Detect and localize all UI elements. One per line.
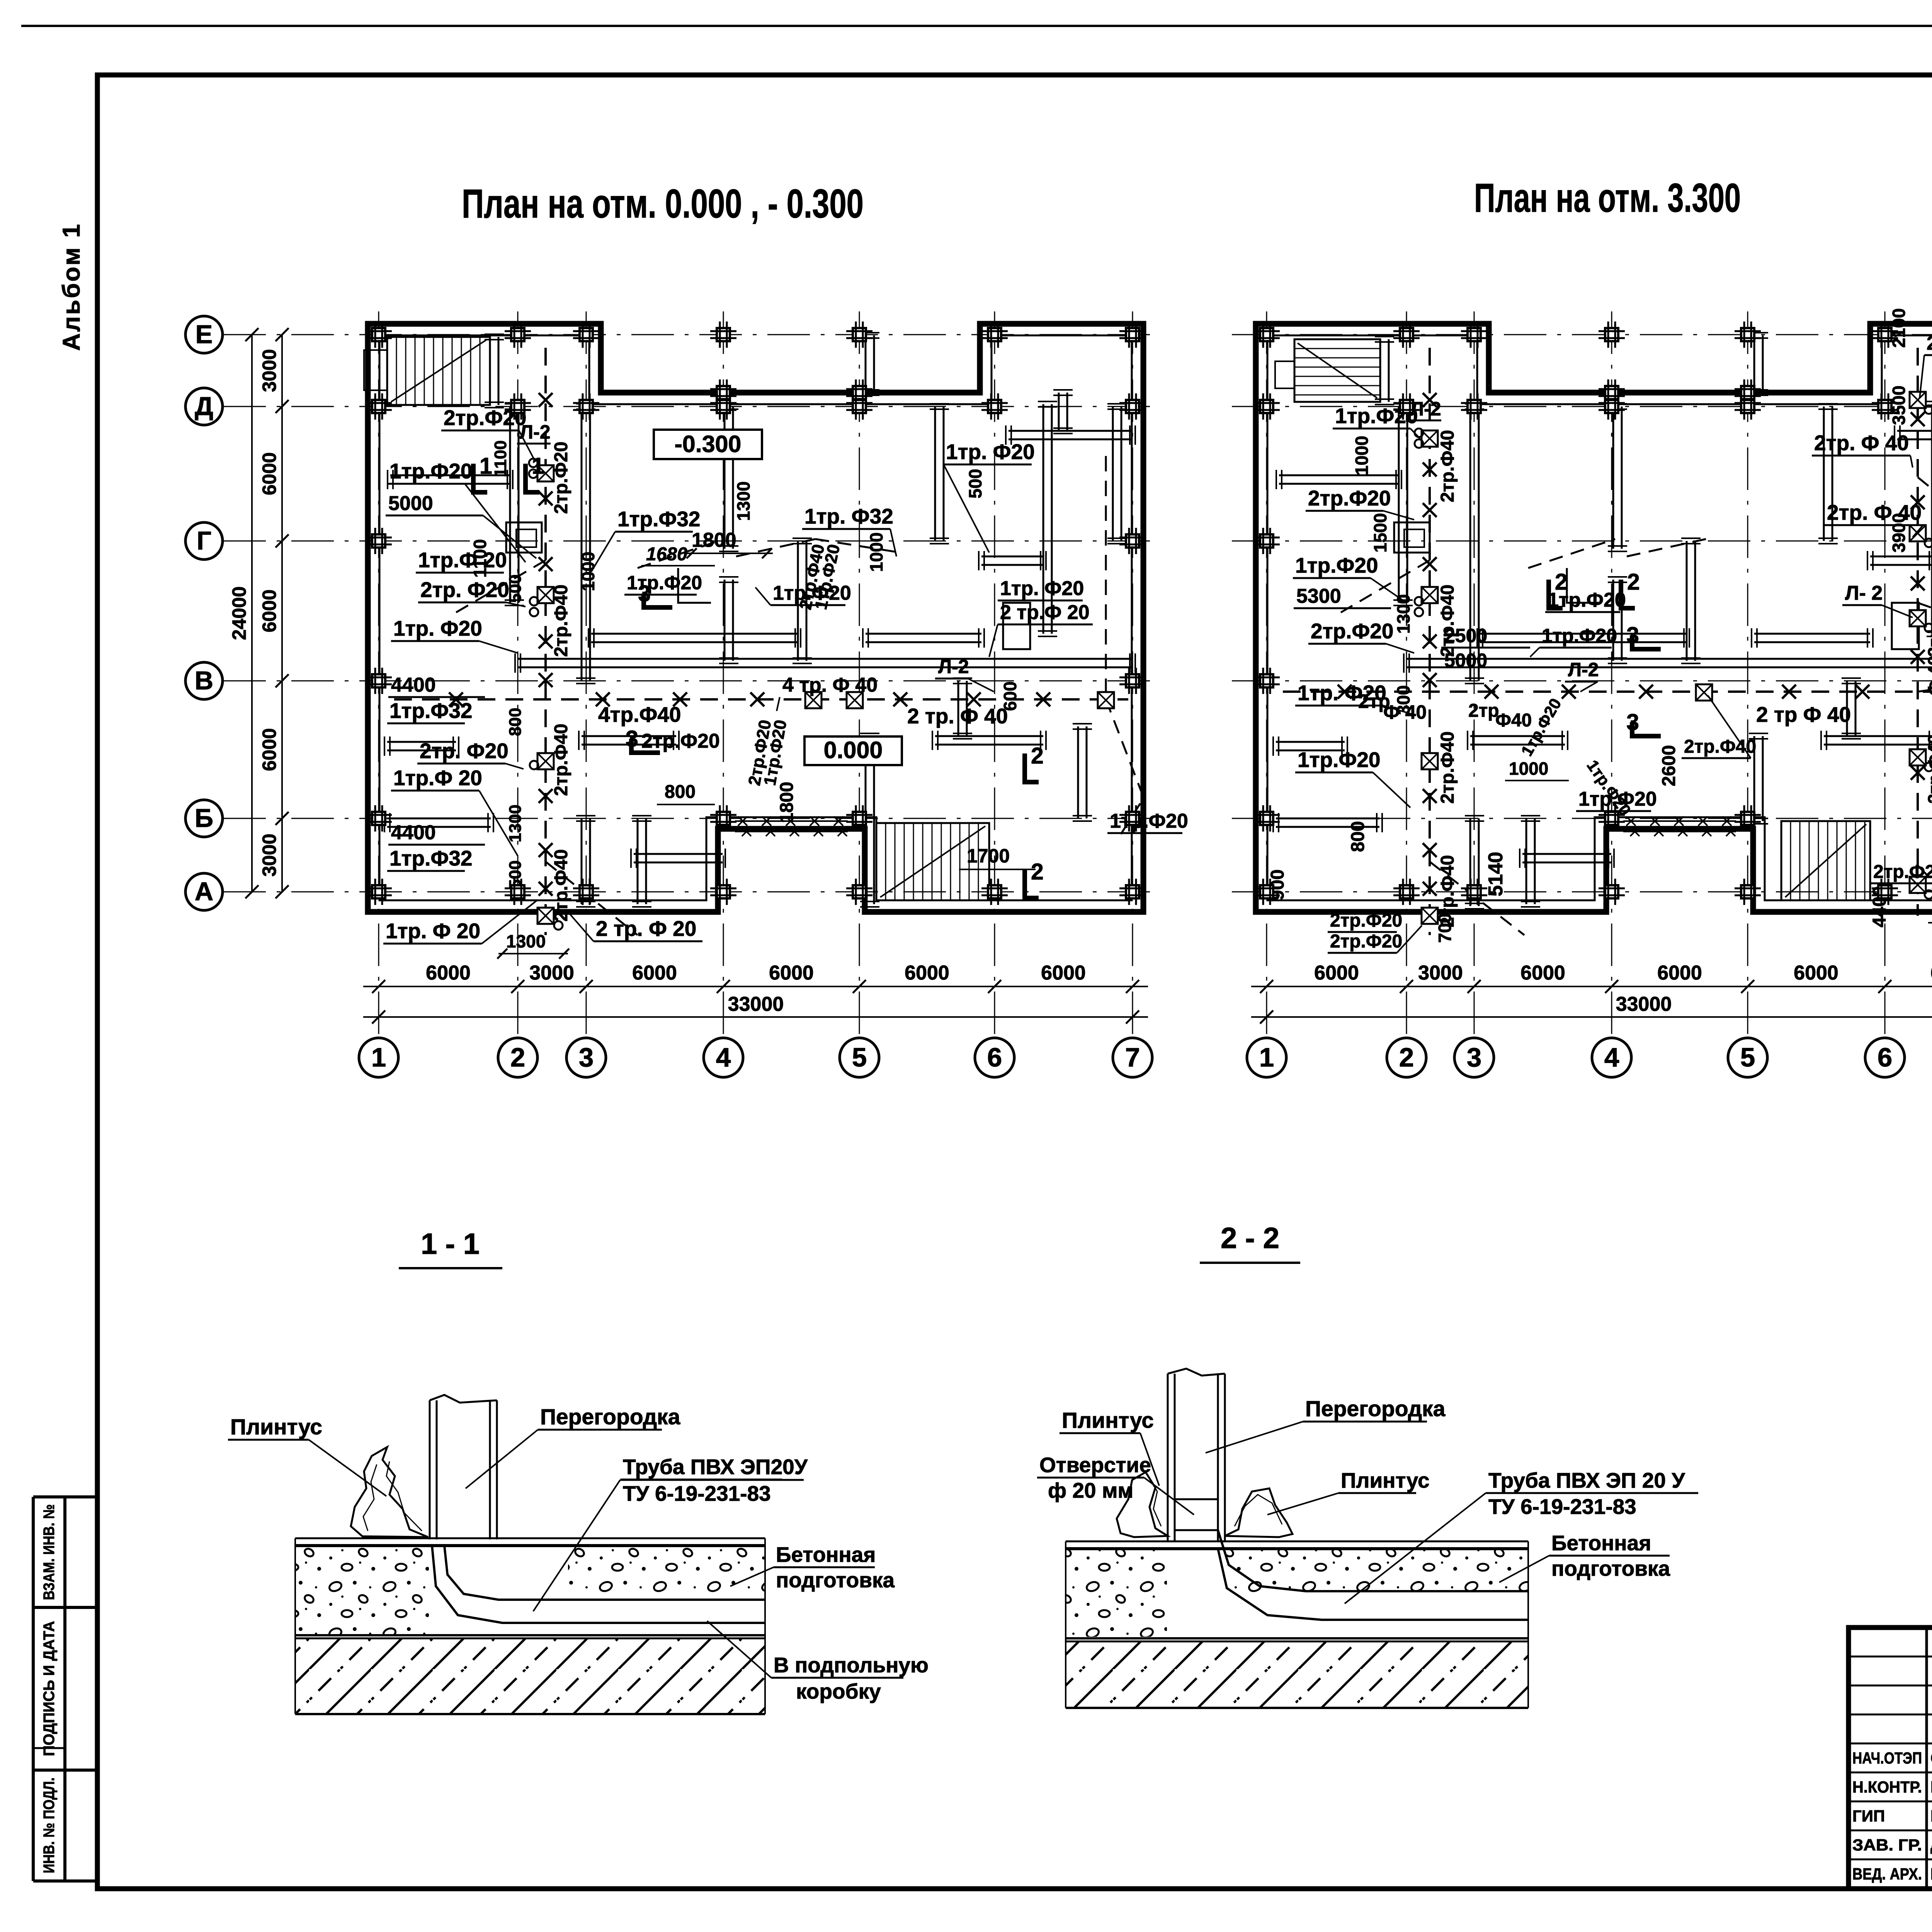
svg-text:Бетонная: Бетонная [1551,1531,1651,1555]
detail2 pvc pipe bend [1218,1530,1528,1591]
svg-text:4тр.Ф40: 4тр.Ф40 [598,702,681,726]
svg-text:1тр.Ф20: 1тр.Ф20 [1542,625,1617,646]
plan1 interior partitions [489,337,491,405]
plan2 interior partitions [1379,339,1381,402]
svg-text:Отверстие: Отверстие [1039,1453,1151,1477]
svg-text:1тр. Ф20: 1тр. Ф20 [393,616,482,640]
svg-text:4: 4 [716,1043,731,1072]
svg-text:24000: 24000 [228,586,250,640]
svg-text:1тр.Ф20: 1тр.Ф20 [1295,553,1378,577]
svg-text:2тр.Ф40: 2тр.Ф40 [1437,585,1458,657]
left stamp column [32,1497,35,1881]
svg-text:6000: 6000 [426,962,471,984]
building outer wall [1256,324,1932,912]
svg-text:1тр. Ф32: 1тр. Ф32 [804,504,893,528]
svg-text:1тр.Ф32: 1тр.Ф32 [389,699,473,723]
svg-text:ВЕСНИК: ВЕСНИК [1930,1807,1932,1825]
svg-text:2600: 2600 [1659,745,1679,786]
svg-text:1000: 1000 [578,552,598,591]
svg-text:Л-2: Л-2 [938,656,969,677]
axis bubbles 1-7 [1247,1038,1286,1077]
detail1 base hatched slab [295,1638,765,1714]
svg-text:коробку: коробку [796,1679,881,1703]
grid axis lines horizontal [1232,334,1932,335]
svg-text:2тр.Ф40: 2тр.Ф40 [1437,855,1458,927]
svg-text:800: 800 [1348,821,1368,852]
svg-text:6000: 6000 [1657,962,1702,984]
svg-text:1800: 1800 [692,529,736,551]
svg-text:4400: 4400 [391,674,436,696]
svg-text:1тр. Ф20: 1тр. Ф20 [946,440,1035,464]
staircase [387,337,490,405]
svg-text:2 тр Ф 40: 2 тр Ф 40 [1756,702,1851,726]
svg-text:2: 2 [1555,569,1568,595]
svg-text:1тр.Ф 20: 1тр.Ф 20 [418,548,507,572]
svg-text:1800: 1800 [777,782,797,823]
svg-text:2: 2 [1031,859,1044,884]
svg-text:Ф 40: Ф 40 [1383,701,1427,723]
axis bubbles 1-7 [359,1038,398,1077]
svg-text:Б: Б [195,804,213,833]
plan1 pipe mains dashed [544,348,547,935]
svg-text:2тр: 2тр [1468,701,1499,721]
svg-text:НИКОЛАЕВА: НИКОЛАЕВА [1930,1865,1932,1883]
svg-text:ВЗАМ. ИНВ. №: ВЗАМ. ИНВ. № [41,1504,58,1600]
svg-text:1300: 1300 [1393,594,1413,634]
svg-text:1000: 1000 [1352,436,1372,475]
svg-text:1тр.Ф20: 1тр.Ф20 [1578,788,1657,810]
svg-text:Труба ПВХ ЭП20У: Труба ПВХ ЭП20У [623,1455,808,1479]
svg-text:Перегородка: Перегородка [540,1405,681,1429]
svg-text:5000: 5000 [388,492,433,515]
detail1 partition [429,1400,431,1539]
svg-text:3: 3 [1626,709,1639,735]
svg-text:800: 800 [506,708,525,736]
svg-text:2: 2 [510,1043,525,1072]
staircase [1781,821,1870,900]
svg-text:ТУ 6-19-231-83: ТУ 6-19-231-83 [623,1481,771,1505]
signature table [1849,1656,1932,1658]
svg-text:В: В [195,666,213,695]
svg-text:ВЕД. АРХ.: ВЕД. АРХ. [1852,1865,1922,1883]
svg-text:3000: 3000 [529,962,574,984]
svg-text:4400: 4400 [391,821,436,844]
elevation 0.000 box [804,736,902,765]
svg-text:6000: 6000 [1041,962,1086,984]
grid axis lines horizontal [223,334,1156,335]
svg-text:Плинтус: Плинтус [1062,1408,1154,1433]
svg-text:500: 500 [965,469,985,498]
svg-text:1: 1 [1259,1043,1274,1072]
svg-text:800: 800 [665,782,696,802]
detail2 concrete prep [1066,1550,1167,1637]
svg-text:1300: 1300 [733,481,753,521]
svg-text:3: 3 [579,1043,594,1072]
svg-text:7: 7 [1125,1043,1140,1072]
svg-text:Перегородка: Перегородка [1305,1396,1446,1421]
svg-text:6000: 6000 [1520,962,1565,984]
svg-text:33000: 33000 [1616,993,1672,1015]
svg-text:2тр. Ф20: 2тр. Ф20 [420,578,509,602]
svg-text:ВЕСНИК: ВЕСНИК [1930,1778,1932,1796]
svg-text:2тр.Ф40: 2тр.Ф40 [551,585,571,657]
svg-text:6: 6 [987,1043,1002,1072]
svg-text:33000: 33000 [728,993,784,1015]
svg-text:2тр.Ф20: 2тр.Ф20 [1330,931,1402,952]
svg-text:6000: 6000 [259,452,280,495]
svg-text:Плинтус: Плинтус [1341,1468,1430,1492]
svg-text:2тр.Ф40: 2тр.Ф40 [1437,430,1458,502]
svg-text:2тр.Ф20: 2тр.Ф20 [1330,910,1402,931]
grid axis lines vertical [1266,311,1267,1038]
detail1 underfloor line [295,1634,765,1636]
column marks at grid intersections [372,328,385,341]
svg-text:Л-2: Л-2 [1410,398,1441,420]
svg-text:2тр.Ф20: 2тр.Ф20 [551,442,571,514]
svg-text:1500: 1500 [1370,513,1390,553]
bottom dimension lines [363,986,1148,987]
svg-text:План на отм. 3.300: План на отм. 3.300 [1474,175,1741,221]
svg-text:ЗАВ. ГР.: ЗАВ. ГР. [1852,1836,1922,1854]
svg-text:3000: 3000 [259,349,280,392]
svg-text:2 - 2: 2 - 2 [1221,1222,1279,1255]
svg-text:2тр.Ф20: 2тр.Ф20 [1308,486,1391,510]
svg-text:СЕРГЕЕВ: СЕРГЕЕВ [1930,1749,1932,1767]
svg-text:Н.КОНТР.: Н.КОНТР. [1852,1778,1922,1796]
svg-text:5300: 5300 [1296,585,1341,607]
svg-text:6000: 6000 [1314,962,1359,984]
svg-text:1тр.Ф32: 1тр.Ф32 [389,846,473,870]
svg-text:5: 5 [1740,1043,1755,1072]
svg-text:2тр. Ф 40: 2тр. Ф 40 [1814,431,1909,455]
svg-text:1тр.Ф20: 1тр.Ф20 [1298,748,1381,772]
svg-text:ПОДПИСЬ И ДАТА: ПОДПИСЬ И ДАТА [41,1621,58,1756]
svg-text:6000: 6000 [905,962,949,984]
svg-text:ТУ 6-19-231-83: ТУ 6-19-231-83 [1488,1495,1636,1519]
elevation -0.300 box [654,430,762,459]
svg-text:2тр.Ф20: 2тр.Ф20 [641,730,720,752]
colonnade columns row [1623,820,1736,822]
svg-text:2тр.Ф40: 2тр.Ф40 [1684,736,1756,757]
svg-text:1000: 1000 [866,532,886,572]
svg-text:Ф40: Ф40 [1495,710,1532,731]
svg-text:1000: 1000 [1509,759,1548,779]
svg-text:3900: 3900 [1889,513,1909,553]
svg-text:1300: 1300 [506,931,546,951]
svg-text:2: 2 [1031,743,1044,769]
svg-text:Е: Е [196,320,213,349]
svg-text:3: 3 [1626,622,1639,648]
building outer wall [368,324,1143,912]
svg-text:ДОБРОМЫСЛОВА: ДОБРОМЫСЛОВА [1930,1836,1932,1854]
svg-text:3000: 3000 [259,833,280,876]
svg-text:1тр.Ф32: 1тр.Ф32 [617,507,701,531]
svg-text:Л- 2: Л- 2 [1845,582,1883,604]
svg-text:6000: 6000 [769,962,814,984]
svg-text:2 тр.Ф 20: 2 тр.Ф 20 [1000,601,1090,624]
sheet top edge line [21,25,1932,27]
svg-text:5: 5 [852,1043,867,1072]
detail1 skirting blob [351,1447,428,1537]
svg-text:6000: 6000 [1794,962,1838,984]
svg-text:6: 6 [1878,1043,1892,1072]
bottom dimension lines [1251,986,1932,987]
left dimension lines and row bubbles [251,335,253,892]
svg-text:2тр.: 2тр. [1924,622,1932,657]
svg-text:Л-2: Л-2 [1568,659,1599,680]
svg-text:Бетонная: Бетонная [776,1543,876,1566]
svg-text:2тр. Ф20: 2тр. Ф20 [420,739,509,763]
detail2 partition [1167,1374,1169,1542]
svg-text:Г: Г [197,526,211,555]
detail2 underfloor line [1066,1637,1528,1639]
svg-text:2: 2 [1627,569,1640,595]
svg-text:6000: 6000 [632,962,677,984]
svg-text:НАЧ.ОТЭП: НАЧ.ОТЭП [1852,1749,1922,1767]
svg-text:Альбом 1: Альбом 1 [58,223,85,351]
grid axis lines vertical [378,311,379,1038]
svg-text:Ф 40: Ф 40 [1924,656,1932,696]
svg-text:2тр. Ф20: 2тр. Ф20 [1927,332,1932,354]
svg-text:6000: 6000 [1930,962,1932,984]
detail2 hole band [1175,1499,1218,1530]
svg-text:2тр.Ф20: 2тр.Ф20 [1311,619,1394,643]
svg-text:подготовка: подготовка [1551,1556,1670,1580]
svg-text:0.000: 0.000 [824,737,883,763]
svg-text:1: 1 [371,1043,386,1072]
svg-text:4: 4 [1604,1043,1619,1072]
svg-text:1тр. Ф20: 1тр. Ф20 [1000,577,1084,600]
svg-text:Плинтус: Плинтус [230,1415,322,1439]
detail2 base hatched slab [1066,1641,1528,1708]
svg-text:Л-2: Л-2 [520,421,551,443]
svg-text:1700: 1700 [967,845,1010,867]
svg-text:4 тр. Ф 40: 4 тр. Ф 40 [782,674,878,696]
svg-text:1: 1 [532,453,544,479]
svg-text:-0.300: -0.300 [675,431,742,457]
svg-text:ИНВ. № ПОДЛ.: ИНВ. № ПОДЛ. [41,1777,58,1873]
svg-text:Д: Д [195,392,213,421]
building inner wall line [379,335,1132,900]
svg-text:3: 3 [1467,1043,1481,1072]
svg-text:3: 3 [638,581,651,606]
building inner wall line [1267,335,1932,900]
svg-text:2 тр. Ф 20: 2 тр. Ф 20 [596,917,696,940]
svg-text:2 тр. Ф 40: 2 тр. Ф 40 [907,704,1008,728]
detail2 floor lines [1066,1541,1528,1543]
detail1 pvc pipe bend [444,1546,765,1600]
svg-text:1100: 1100 [470,539,490,578]
svg-text:2тр.Ф40: 2тр.Ф40 [1437,731,1458,804]
svg-text:5140: 5140 [1485,852,1507,896]
svg-text:А: А [195,877,213,906]
svg-text:6000: 6000 [259,589,280,632]
staircase [1294,339,1380,402]
svg-text:6000: 6000 [259,728,280,771]
column marks at grid intersections [1260,328,1273,341]
svg-text:2тр.Ф40: 2тр.Ф40 [551,724,571,796]
svg-text:1680: 1680 [646,544,687,565]
svg-text:500: 500 [506,575,525,603]
svg-text:ф 20 мм: ф 20 мм [1048,1478,1133,1502]
svg-text:1100: 1100 [491,440,510,477]
detail1 concrete prep [295,1547,429,1634]
svg-text:3000: 3000 [1418,962,1463,984]
svg-text:3: 3 [626,726,638,752]
svg-text:1: 1 [480,453,492,479]
svg-text:2тр.Ф40: 2тр.Ф40 [1924,735,1932,804]
svg-text:ГИП: ГИП [1852,1807,1885,1825]
staircase [876,823,989,900]
svg-text:Труба ПВХ ЭП 20 У: Труба ПВХ ЭП 20 У [1488,1468,1685,1492]
colonnade columns row [735,820,848,822]
detail2 skirting blobs [1117,1472,1168,1537]
detail1 floor lines [295,1537,765,1539]
svg-text:1тр.Ф20: 1тр.Ф20 [389,459,473,483]
svg-text:В подпольную: В подпольную [774,1653,929,1677]
svg-text:2: 2 [1399,1043,1414,1072]
svg-text:1тр.Ф 20: 1тр.Ф 20 [393,766,482,790]
svg-text:2тр.Ф40: 2тр.Ф40 [551,849,571,922]
svg-text:1300: 1300 [506,804,525,842]
plan2 pipe mains dashed [1429,348,1431,935]
svg-text:1 - 1: 1 - 1 [421,1228,480,1260]
svg-text:1тр. Ф 20: 1тр. Ф 20 [386,919,480,943]
svg-text:600: 600 [1000,681,1020,711]
svg-text:План на отм. 0.000 , - 0.30: План на отм. 0.000 , - 0.300 [462,181,864,226]
svg-text:подготовка: подготовка [776,1568,895,1592]
